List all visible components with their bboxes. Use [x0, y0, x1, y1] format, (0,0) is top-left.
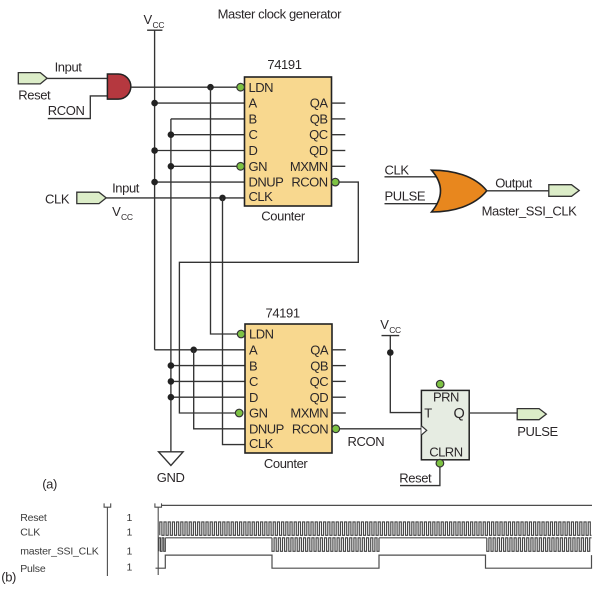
junction VCC-A1	[151, 100, 158, 107]
wire VCC net vertical	[154, 30, 156, 350]
power VCC1 bar	[147, 29, 162, 31]
svg-text:DNUP: DNUP	[249, 175, 284, 190]
svg-text:Counter: Counter	[264, 456, 309, 471]
pin labels counter1 right	[290, 96, 329, 190]
svg-text:RCON: RCON	[292, 422, 328, 437]
wire RCON1 to GN2	[179, 182, 358, 413]
ground symbol GND	[159, 452, 184, 466]
wire Reset to AND gate	[47, 77, 108, 79]
svg-text:C: C	[249, 127, 258, 142]
svg-text:CLK: CLK	[249, 189, 274, 204]
svg-text:V: V	[112, 204, 121, 219]
wire LDN net vertical to counter2	[211, 87, 238, 334]
svg-text:QA: QA	[310, 96, 329, 111]
svg-text:(b): (b)	[1, 569, 16, 584]
connector Reset input	[18, 73, 47, 84]
bubble RCON2	[332, 425, 340, 433]
junction VCC2 dot	[387, 349, 394, 356]
svg-text:Q: Q	[454, 406, 465, 422]
wire RCON to AND gate input	[48, 96, 108, 119]
svg-text:1: 1	[127, 562, 133, 574]
svg-text:A: A	[249, 343, 258, 358]
svg-text:Input: Input	[112, 180, 140, 195]
pin stub MXMN1	[332, 165, 346, 167]
wire VCC2 to flip-flop T	[390, 336, 421, 413]
waveform master_SSI_CLK high 2	[379, 537, 487, 539]
pin labels counter2 right	[290, 343, 329, 437]
svg-text:RCON: RCON	[291, 175, 327, 190]
connector CLK input	[77, 192, 106, 203]
wire DNUP1 from VCC	[155, 181, 245, 183]
connector PULSE output	[517, 409, 546, 420]
svg-text:74191: 74191	[267, 57, 301, 72]
junction GND-C1	[168, 131, 175, 138]
svg-text:1: 1	[127, 512, 133, 524]
svg-text:RCON: RCON	[48, 103, 85, 118]
svg-text:1: 1	[127, 546, 133, 558]
svg-text:MXMN: MXMN	[290, 406, 328, 421]
svg-text:1: 1	[127, 527, 133, 539]
svg-text:Reset: Reset	[18, 88, 51, 103]
svg-text:B: B	[249, 111, 257, 126]
svg-text:CLK: CLK	[385, 162, 410, 177]
wire CLK to OR gate	[385, 176, 439, 178]
bubble LDN1	[237, 83, 245, 91]
junction VCC-DNUP1	[151, 179, 158, 186]
wire A2 to DNUP2	[194, 350, 245, 429]
svg-text:PULSE: PULSE	[517, 424, 558, 439]
junction GND-GN1	[168, 163, 175, 170]
svg-text:Reset: Reset	[399, 471, 432, 486]
svg-text:V: V	[144, 12, 153, 27]
svg-text:GND: GND	[157, 470, 185, 485]
wire Reset to CLRN	[400, 467, 440, 486]
svg-text:CLRN: CLRN	[429, 444, 463, 459]
svg-text:DNUP: DNUP	[249, 422, 284, 437]
svg-text:master_SSI_CLK: master_SSI_CLK	[20, 546, 99, 558]
clock triangle flip-flop	[421, 426, 426, 435]
bubble RCON1	[332, 178, 340, 186]
svg-text:(a): (a)	[42, 477, 57, 492]
svg-text:A: A	[249, 96, 258, 111]
wire GND net vertical	[170, 119, 172, 452]
svg-text:QC: QC	[309, 127, 328, 142]
svg-text:CLK: CLK	[45, 191, 70, 206]
svg-text:V: V	[380, 317, 389, 332]
and-gate U1	[107, 74, 130, 99]
svg-text:T: T	[424, 406, 432, 421]
pin stub QC2	[332, 380, 346, 382]
pin stub QB2	[332, 365, 346, 367]
waveform master_SSI_CLK burst 1	[159, 538, 166, 552]
flip-flop U4 box	[421, 390, 469, 459]
wire D1 from VCC	[155, 150, 245, 152]
svg-text:74191: 74191	[266, 306, 300, 321]
wire Q to PULSE connector	[469, 412, 517, 414]
svg-text:Reset: Reset	[20, 512, 47, 524]
waveform CLK band	[160, 522, 592, 535]
wire B2 from GND net	[171, 365, 245, 367]
counter U2 74191 box	[245, 77, 332, 206]
svg-text:CLK: CLK	[249, 436, 274, 451]
wire AND output to LDN1	[131, 86, 237, 88]
wire GN1 from GND net	[171, 165, 237, 167]
waveform Reset trace	[161, 504, 592, 506]
svg-text:MXMN: MXMN	[290, 159, 328, 174]
bubble PRN	[436, 380, 444, 388]
svg-text:Master clock generator: Master clock generator	[218, 7, 342, 22]
connector Master_SSI_CLK output	[549, 185, 579, 197]
svg-text:Pulse: Pulse	[20, 563, 46, 575]
wire OR output	[486, 190, 548, 192]
wire C2 from GND net	[171, 380, 245, 382]
svg-text:Master_SSI_CLK: Master_SSI_CLK	[482, 204, 578, 219]
svg-text:RCON: RCON	[348, 434, 385, 449]
pin stub QD2	[332, 396, 346, 398]
wire RCON2 to flip-flop clock	[340, 428, 422, 430]
pin stub QA1	[332, 102, 346, 104]
junction VCC-D1	[151, 147, 158, 154]
power VCC2 bar	[382, 335, 400, 337]
svg-text:QB: QB	[310, 358, 328, 373]
pin stub MXMN2	[332, 412, 346, 414]
timing cursor 1	[104, 503, 111, 576]
svg-text:D: D	[249, 390, 258, 405]
svg-text:PULSE: PULSE	[385, 189, 426, 204]
label VCC near CLK wire	[112, 204, 133, 222]
waveform master_SSI_CLK high 1	[165, 537, 272, 539]
counter U3 74191 box	[245, 324, 332, 453]
bubble GN2	[235, 409, 243, 417]
svg-text:QD: QD	[310, 390, 329, 405]
waveform Pulse trace	[156, 555, 592, 568]
wire A2 row from VCC	[155, 349, 245, 351]
timing cursor 2	[155, 503, 162, 575]
svg-text:Output: Output	[495, 176, 532, 191]
power VCC2 label	[380, 317, 401, 335]
wire CLK input to counter1	[106, 197, 244, 199]
pin labels counter1 left	[249, 80, 284, 204]
wire B1 to GND net	[171, 118, 245, 120]
bubble CLRN	[436, 459, 444, 467]
junction LDN net tap	[207, 84, 214, 91]
waveform master_SSI_CLK burst 2	[272, 538, 379, 552]
junction GND-B2	[168, 362, 175, 369]
svg-text:Input: Input	[55, 60, 83, 75]
svg-text:C: C	[249, 374, 258, 389]
pin labels counter2 left	[249, 327, 284, 451]
svg-text:CC: CC	[153, 20, 165, 30]
pin stub QC1	[332, 134, 346, 136]
svg-text:PRN: PRN	[433, 390, 459, 405]
junction CLK net tap	[219, 195, 226, 202]
svg-text:GN: GN	[249, 406, 268, 421]
svg-text:Counter: Counter	[261, 209, 306, 224]
svg-text:CC: CC	[389, 325, 401, 335]
or-gate U5	[432, 170, 487, 212]
junction A2-DNUP2 tap	[190, 347, 197, 354]
wire C1 from GND net	[171, 134, 245, 136]
waveform master_SSI_CLK burst 3	[487, 538, 592, 552]
svg-text:B: B	[249, 358, 257, 373]
pin stub QB1	[332, 118, 346, 120]
svg-text:LDN: LDN	[249, 80, 274, 95]
svg-text:QC: QC	[310, 374, 329, 389]
svg-text:CLK: CLK	[20, 527, 40, 539]
svg-text:QD: QD	[309, 143, 328, 158]
pin stub QD1	[332, 150, 346, 152]
bubble LDN2	[237, 330, 245, 338]
wire D2 from GND net	[171, 396, 245, 398]
svg-text:D: D	[249, 143, 258, 158]
svg-text:QB: QB	[310, 111, 328, 126]
svg-text:LDN: LDN	[249, 327, 274, 342]
junction GND-D2	[168, 394, 175, 401]
wire A1 from VCC	[155, 102, 245, 104]
svg-text:GN: GN	[249, 159, 268, 174]
wire CLK net vertical to counter2	[223, 198, 246, 445]
junction GND-C2	[168, 378, 175, 385]
pin stub QA2	[332, 349, 346, 351]
power VCC1 label	[144, 12, 165, 30]
wire PULSE to OR gate	[385, 203, 439, 205]
bubble GN1	[237, 163, 245, 171]
svg-text:QA: QA	[310, 343, 329, 358]
svg-text:CC: CC	[121, 212, 133, 222]
